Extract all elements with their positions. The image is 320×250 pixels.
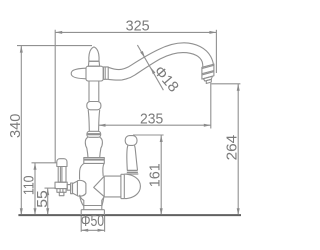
svg-text:235: 235: [140, 111, 163, 128]
svg-text:325: 325: [126, 18, 150, 35]
svg-text:161: 161: [146, 163, 163, 187]
svg-text:Φ50: Φ50: [81, 213, 105, 230]
svg-text:340: 340: [7, 114, 24, 138]
svg-text:55: 55: [34, 190, 51, 208]
svg-text:264: 264: [223, 135, 240, 161]
